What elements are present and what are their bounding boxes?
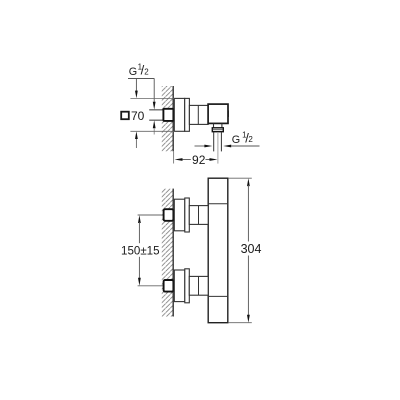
- text 92: [192, 153, 206, 167]
- escutcheon flange ring (top figure): [185, 98, 190, 131]
- dimension 304: line lower segment with down arrow: [247, 256, 250, 323]
- lower supply centerline / extension line: [138, 285, 164, 287]
- svg-text:G: G: [232, 134, 240, 146]
- lower union nut: [164, 280, 174, 292]
- extension line, body bottom: [228, 322, 252, 324]
- svg-text:304: 304: [241, 242, 262, 256]
- upper escutcheon flange ring: [185, 198, 190, 232]
- extension line, escutcheon top: [130, 97, 174, 99]
- outlet neck below cube: [214, 123, 222, 128]
- text 70: [131, 109, 145, 123]
- svg-text:2: 2: [144, 68, 149, 77]
- down arrow to escutcheon top (70-dim): [135, 79, 138, 99]
- outlet pipe (downward): [214, 132, 222, 152]
- svg-text:92: 92: [192, 153, 206, 167]
- label G 1/2 (top inlet): [129, 63, 149, 78]
- body seam upper: [209, 203, 227, 205]
- dimension 92: right arrow: [206, 158, 218, 161]
- extension line, escutcheon bottom: [130, 130, 174, 132]
- up arrow to escutcheon bottom (70-dim): [135, 131, 138, 148]
- label G 1/2 (outlet): [232, 130, 254, 146]
- wall surface line (bottom figure): [172, 189, 174, 317]
- square symbol of dimension 70: [121, 112, 129, 120]
- connector cylinder (top figure): [189, 105, 208, 124]
- extension line, body top: [228, 177, 252, 179]
- upper connector cylinder: [189, 206, 208, 225]
- dimension 150±15: line upper segment with up arrow: [138, 215, 141, 243]
- cube elbow body: [208, 104, 228, 123]
- thermostat body: [208, 178, 228, 323]
- upper supply centerline / extension line: [138, 214, 164, 216]
- outlet collar: [212, 128, 223, 132]
- extension line from outlet axis down to 92-dim: [217, 133, 219, 164]
- upper escutcheon plate: [174, 199, 185, 231]
- svg-text:70: 70: [131, 109, 145, 123]
- G 1/2 dimension at outlet: left arrow: [195, 145, 213, 148]
- svg-text:2: 2: [248, 135, 253, 144]
- body seam lower: [209, 295, 227, 297]
- text 150±15: [121, 244, 160, 258]
- wall hatching (top figure): [162, 86, 173, 151]
- svg-text:150±15: 150±15: [121, 244, 160, 258]
- leader with down arrow to pipe top (G 1/2): [153, 79, 156, 110]
- lower escutcheon plate: [174, 270, 185, 302]
- wall hatching (bottom figure): [162, 189, 173, 317]
- svg-text:G: G: [129, 66, 137, 78]
- G 1/2 dimension at outlet: right arrow with leader under text: [223, 145, 259, 148]
- text 304: [241, 242, 262, 256]
- escutcheon plate (top figure): [174, 98, 184, 131]
- dimension 304: line upper segment with up arrow: [247, 178, 250, 241]
- lower escutcheon flange ring: [185, 269, 190, 303]
- upper union nut: [164, 209, 174, 221]
- inlet pipe (horizontal, behind wall): [149, 110, 164, 120]
- lower connector cylinder: [189, 276, 208, 295]
- union nut (behind wall): [163, 109, 173, 121]
- dimension 150±15: line lower segment with down arrow: [138, 257, 141, 286]
- bump on cube right face: [228, 111, 229, 118]
- extension of wall line down for 92-dim: [173, 151, 175, 163]
- underline of G 1/2 label: [128, 78, 154, 80]
- wall surface line (top figure): [172, 86, 174, 151]
- dimension 92: left arrow: [175, 158, 191, 161]
- up arrow to pipe bottom (G 1/2): [153, 120, 156, 134]
